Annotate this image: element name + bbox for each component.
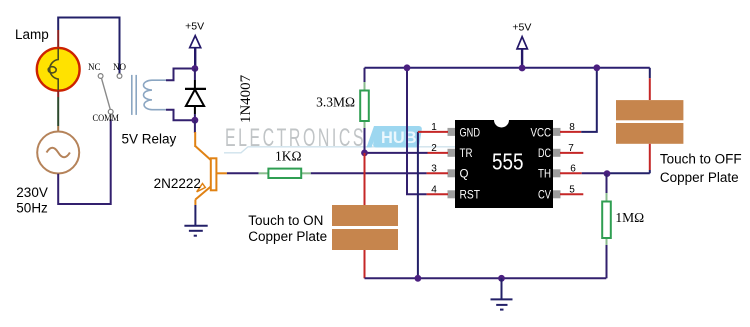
wire rail right to OFF plate (649, 68, 651, 78)
svg-text:50Hz: 50Hz (16, 201, 48, 216)
svg-text:5: 5 (569, 185, 575, 196)
svg-text:Copper Plate: Copper Plate (660, 170, 739, 185)
pin 3 stub (427, 172, 448, 174)
+5V arrow right (512, 22, 531, 69)
wire diode bottom (194, 114, 196, 120)
wire junction down to ON plate (red) (364, 153, 366, 205)
wire collector net (194, 120, 196, 133)
svg-text:8: 8 (569, 122, 575, 133)
svg-text:1: 1 (431, 122, 437, 133)
relay coil K1 (144, 80, 167, 110)
resistor R3 1MOhm body (602, 202, 611, 239)
wire 1K to pin3 Q (311, 172, 427, 174)
node junction ground symbol (498, 275, 505, 282)
wire 3.3M bottom to junction (364, 128, 366, 153)
IC body (455, 120, 553, 208)
wire rail left down to 3.3M (364, 68, 366, 82)
svg-text:NO: NO (113, 62, 126, 72)
resistor R2 1KOhm leads (259, 172, 269, 174)
wire junction down to 1M (606, 174, 608, 193)
svg-text:5V Relay: 5V Relay (122, 132, 177, 147)
wire VCC pin8 to rail (581, 68, 597, 132)
wire lamp top red stub (57, 30, 59, 48)
notch (494, 120, 509, 128)
svg-text:HUB: HUB (381, 128, 417, 147)
node junction at +5V/diode top (192, 65, 199, 72)
svg-text:3: 3 (431, 164, 437, 175)
switch COMM terminal (108, 109, 113, 114)
copper plate Touch-to-OFF top (616, 100, 683, 120)
wire diode top (194, 69, 196, 81)
svg-text:4: 4 (431, 185, 437, 196)
node junction diode bottom (192, 117, 199, 124)
svg-text:2: 2 (431, 143, 437, 154)
svg-text:2N2222: 2N2222 (154, 176, 201, 191)
wire RST pin4 from rail (407, 68, 427, 195)
wire TH to junction (582, 172, 607, 174)
wire OFF plate bottom (red) (649, 144, 651, 170)
pin 8 stub (560, 131, 581, 133)
node junction +5V on rail (519, 65, 526, 72)
svg-text:+5V: +5V (512, 22, 531, 34)
diode D1 1N4007 (185, 80, 206, 114)
pin pads left (448, 128, 459, 136)
svg-text:TR: TR (460, 146, 473, 160)
copper plate Touch-to-ON bottom (332, 229, 398, 250)
wire emitter to ground (194, 205, 196, 226)
node junction TR/3.3M/plate (361, 150, 368, 157)
lamp X1 (37, 48, 80, 91)
svg-text:VCC: VCC (531, 125, 552, 139)
svg-text:555: 555 (492, 149, 524, 175)
wire relay bottom lead (166, 110, 195, 121)
wire junction to TR pin2 (365, 152, 428, 154)
wire 1M bottom to rail (606, 245, 608, 278)
svg-text:Copper Plate: Copper Plate (248, 229, 327, 244)
wire lamp top net (lamp -> NO) (58, 18, 119, 74)
resistor R3 1MOhm leads (606, 193, 608, 202)
bottom ground rail (365, 277, 607, 279)
555 IC U1 (448, 120, 561, 208)
node junction RST on rail (404, 64, 411, 71)
svg-text:GND: GND (460, 125, 481, 139)
svg-text:1N4007: 1N4007 (238, 74, 254, 123)
ground (emitter) (184, 226, 207, 236)
AC source V1 230V 50Hz (37, 132, 79, 174)
svg-text:NC: NC (88, 62, 101, 72)
svg-text:RST: RST (460, 188, 481, 202)
resistor R1 3.3MOhm body (360, 91, 369, 122)
svg-text:DC: DC (538, 146, 551, 160)
svg-text:COMM: COMM (93, 113, 120, 123)
svg-text:Touch to ON: Touch to ON (248, 213, 323, 228)
copper plate Touch-to-OFF bottom (616, 123, 683, 144)
svg-text:1KΩ: 1KΩ (275, 149, 302, 164)
wire base to 1K resistor (227, 172, 259, 174)
top +5V rail (365, 67, 650, 69)
node junction VCC on rail (593, 64, 600, 71)
svg-text:3.3MΩ: 3.3MΩ (316, 95, 355, 110)
switch lever (102, 78, 111, 109)
transistor Q1 2N2222 (195, 132, 227, 205)
svg-text:Lamp: Lamp (15, 27, 49, 42)
pin 7 stub (560, 152, 583, 154)
svg-text:Q: Q (460, 167, 469, 181)
wire ON plate bottom to rail (red) (364, 250, 366, 278)
wire GND pin1 down to bottom rail (417, 132, 419, 278)
pin 4 stub (427, 193, 448, 195)
switch NO terminal (117, 74, 122, 79)
svg-text:Touch to OFF: Touch to OFF (660, 152, 742, 167)
pin 6 stub (560, 172, 582, 174)
wire lamp bottom to source (green net) (57, 91, 59, 97)
copper plate Touch-to-ON top (332, 205, 398, 226)
wire source bottom to COMM (58, 119, 110, 204)
ground (main) (491, 278, 513, 309)
svg-text:1MΩ: 1MΩ (615, 210, 644, 225)
resistor R1 3.3MOhm leads (364, 82, 366, 91)
node junction GND wire on bottom rail (415, 275, 422, 282)
pin 2 stub (428, 152, 449, 154)
pin 5 stub (560, 193, 583, 195)
node junction TH/1M/plate (604, 170, 611, 177)
svg-text:+5V: +5V (185, 21, 204, 33)
+5V arrow left (185, 21, 204, 69)
svg-text:TH: TH (538, 167, 551, 181)
svg-text:230V: 230V (16, 185, 48, 200)
wire relay top lead (166, 69, 195, 81)
svg-text:CV: CV (538, 188, 551, 202)
pin 1 stub (418, 131, 448, 133)
resistor R2 1KOhm body (268, 169, 301, 178)
switch NC terminal (98, 74, 103, 79)
watermark ElectronicsHub (224, 124, 468, 153)
relay core bars (131, 75, 133, 115)
pin pads right (550, 128, 561, 136)
svg-text:6: 6 (570, 164, 576, 175)
svg-text:7: 7 (568, 143, 574, 154)
